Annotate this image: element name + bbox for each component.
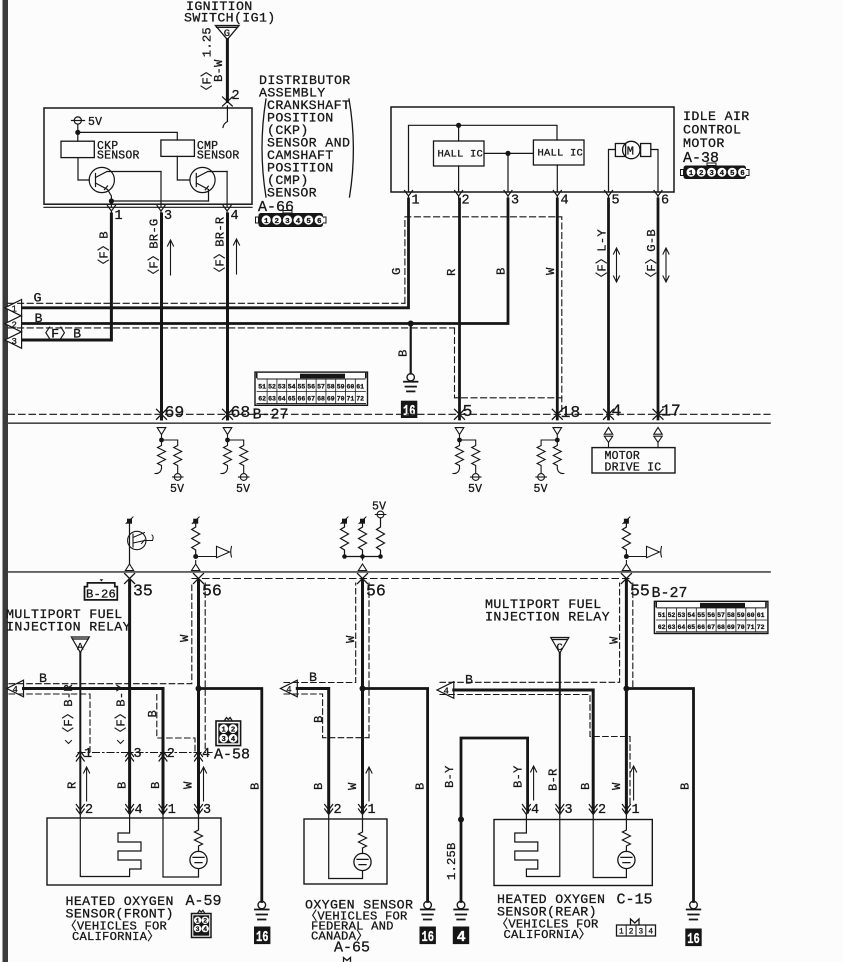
svg-text:59: 59 [737,612,745,619]
svg-text:1: 1 [115,209,123,224]
wire B bus right [454,690,593,812]
pin 17 label [661,402,681,421]
B-27 label top [253,407,289,424]
sensor element A-59 (zener cell) [195,815,203,852]
svg-text:W: W [346,782,360,790]
HALL IC 1 [434,141,485,166]
heater element A-59 [80,815,141,877]
A-65 pin labels 2 1 [334,803,376,818]
svg-text:72: 72 [356,396,364,403]
svg-text:2: 2 [629,929,634,937]
wire A38 pin1 G [22,199,409,308]
A-59 pin chevrons (down) [76,805,202,815]
resistor R to 5V (pin69 right) [162,440,182,474]
svg-text:56: 56 [307,384,315,391]
svg-text:70: 70 [737,624,745,631]
svg-text:G: G [390,267,404,275]
svg-text:67: 67 [707,624,715,631]
5V supply pin68 [239,474,250,481]
svg-text:2: 2 [231,726,235,734]
svg-text:1: 1 [368,803,376,818]
big parenthesis left [262,99,266,197]
pin 18 label [561,403,581,422]
svg-text:65: 65 [687,624,695,631]
wire label B-R [546,768,560,791]
transistor Q1 (CKP output) [78,158,161,201]
pin 2 crossing X [223,97,233,106]
connector icon A-59 [192,910,212,937]
ground ref box 4 [453,927,469,945]
distributor assembly text block [259,73,351,201]
svg-text:B: B [312,782,326,790]
svg-text:66: 66 [297,396,305,403]
ECU connector dashed line B-27 top [8,413,770,415]
pin 68 label [231,403,251,422]
svg-text:62: 62 [258,396,266,403]
5V supply pin56M [375,511,386,518]
node pin69 [159,438,164,443]
A-58 pin chevrons (up) with vee marks [66,741,203,762]
svg-text:B: B [146,710,160,718]
wire hall2 out pin4 [556,165,558,192]
svg-text:〈F〉BR-R: 〈F〉BR-R [213,217,228,279]
svg-text:61: 61 [356,384,364,391]
wire shield drain to ground left [199,689,262,902]
svg-text:63: 63 [668,624,676,631]
wire 1.25 B-W from ignition switch [226,40,229,102]
svg-text:5V: 5V [88,116,102,129]
wire label G horizontal [34,291,42,306]
svg-text:5V: 5V [468,483,482,496]
A-58 label [214,747,250,764]
wire distributor pin1 <F>B [22,214,112,340]
svg-text:HALL IC: HALL IC [438,149,484,161]
harness arrow 1 (to page) [5,300,22,317]
big parenthesis right [349,99,353,197]
svg-text:69: 69 [327,396,335,403]
svg-text:B: B [149,781,163,789]
A-65 pin chevrons [325,805,367,815]
svg-text:W: W [610,782,624,790]
svg-text:5: 5 [612,194,620,209]
internal terminal marks pin56M [342,519,347,524]
svg-text:69: 69 [165,403,185,422]
svg-text:71: 71 [747,624,755,631]
wire label B horizontal [35,311,43,326]
resistor trio pin56M right [377,518,385,557]
svg-text:5V: 5V [236,483,250,496]
shield dashed around B corner [157,695,195,753]
svg-text:4: 4 [202,747,210,762]
direction arrow up (W mid) [366,767,372,801]
svg-text:B: B [579,782,593,790]
pin 5 crossing X [455,409,465,419]
resistor R (pin68 left) [221,440,232,474]
idle air control motor box A-38 [391,107,674,192]
wire labels B-Y / B / W above C-15 [511,765,624,790]
svg-text:3: 3 [511,194,519,209]
direction arrow double G-B [663,248,669,282]
wire labels below A-58: R B B W [66,781,196,789]
wire Q2 collector to pin4 [226,172,228,208]
svg-text:R: R [66,781,80,789]
svg-text:68: 68 [317,396,325,403]
resistor R to 5V (pin68 right) [228,440,248,474]
svg-text:SWITCH(IG1): SWITCH(IG1) [184,11,276,26]
wire 35 down [128,581,131,812]
distributor assembly box A-66 [44,108,252,204]
node pin18 [555,438,560,443]
svg-text:3: 3 [285,218,290,226]
A-59 pin labels 2 4 1 3 [85,803,211,818]
svg-text:57: 57 [317,384,325,391]
wire label B right [465,673,473,688]
pin arrow V distributor pin4 [223,206,231,215]
node shield right [623,686,629,692]
svg-text:A-38: A-38 [683,150,719,167]
direction arrow up (W right) [631,766,637,800]
svg-text:A-65: A-65 [334,940,370,957]
sensor element A-65 [359,815,367,854]
svg-text:16: 16 [422,929,435,946]
CMP sensor block [161,140,195,156]
svg-text:67: 67 [307,396,315,403]
wire label B mid upper [312,715,326,723]
shield dashed right of 55 [632,583,634,689]
pin 5 label [463,402,473,421]
svg-text:〈F〉B: 〈F〉B [38,327,82,342]
svg-text:A-59: A-59 [186,893,222,910]
svg-text:54: 54 [288,384,296,391]
svg-text:MOTOR: MOTOR [683,136,725,151]
input triangle pin69 [157,428,166,440]
internal terminal mark pin35 [127,519,132,524]
node B to ground junction [408,321,414,327]
C-15 pin labels 4 3 2 1 [531,803,640,818]
wire relay A down [79,653,81,812]
wire labels B / W above A-65 [312,782,360,790]
wire distributor pin4 BR-R [226,214,229,419]
comparator buffer pin55 [626,546,661,557]
svg-text:B: B [312,715,326,723]
wire shield drain to ground mid [363,689,428,902]
svg-text:5V: 5V [170,483,184,496]
C-15 caption [496,892,653,943]
wire label <F>B [97,231,112,271]
svg-text:4: 4 [135,803,143,818]
svg-text:55: 55 [297,384,305,391]
wire label <F> 1.25 [200,27,215,97]
shield dashed below bus mid [284,694,369,738]
wire B bus mid [297,689,328,813]
heater element C-15 [515,815,560,877]
svg-text:B-26: B-26 [86,588,116,602]
svg-text:〈F〉B-Y: 〈F〉B-Y [113,684,128,739]
relay terminal triangle A [71,637,89,653]
svg-text:B: B [35,311,43,326]
wire label <F>BR-G [147,219,162,281]
svg-text:M: M [627,145,634,159]
svg-text:B: B [116,781,130,789]
svg-text:4: 4 [231,736,236,744]
wire label <F>B-R [61,684,76,739]
svg-text:HALL IC: HALL IC [538,148,584,160]
wire A38 pin5 L-Y [607,199,610,419]
wire motor pin5 [609,150,616,193]
sensor element C-15 [622,815,630,852]
direction arrow up (W wire) [201,767,207,801]
svg-text:5: 5 [463,402,473,421]
svg-text:16: 16 [256,929,269,946]
wire hall link [484,152,533,154]
svg-text:1: 1 [412,194,420,209]
svg-text:B-R: B-R [546,768,560,791]
node shield to ground [196,686,202,692]
harness arrow 4 mid [281,680,298,697]
wire B-Y loop (rear sensor heater feed) [461,738,528,902]
svg-text:35: 35 [133,582,153,601]
B-27 label bottom [652,585,688,602]
wire label <F>G-B [644,229,659,284]
pin 55 label [630,582,650,601]
pin 55 crossing X [621,574,631,584]
harness arrow 4 right [437,682,454,699]
svg-text:2: 2 [598,803,606,818]
svg-text:52: 52 [268,384,276,391]
svg-text:59: 59 [337,384,345,391]
wire label <F>B horizontal [38,327,82,342]
pin 69 label [165,403,185,422]
svg-text:53: 53 [278,384,286,391]
svg-text:58: 58 [727,612,735,619]
wire motor pin6 [651,150,658,193]
resistor R (pin69 left) [155,440,166,474]
pin 56 left crossing X [194,574,204,584]
svg-text:1: 1 [619,929,624,937]
pin 35 label [133,582,153,601]
ground ref box 16 right [685,929,701,947]
svg-text:4: 4 [531,803,539,818]
svg-text:B: B [249,782,263,790]
pin 35 crossing X [125,574,135,584]
svg-text:W: W [178,634,192,642]
svg-text:72: 72 [757,624,765,631]
svg-text:1: 1 [222,726,227,734]
ground ref box 16 mid [420,927,436,945]
svg-text:60: 60 [747,612,755,619]
svg-text:3: 3 [164,209,172,224]
svg-text:W: W [544,267,558,275]
shield dashed above bus right [440,583,620,682]
direction arrow up BR-G [168,240,174,275]
svg-text:B-W: B-W [212,59,226,82]
wire shield drain to ground right [626,689,693,902]
svg-text:4: 4 [612,402,622,421]
wire 56L down to shield node [197,581,200,689]
harness arrow 4 left [7,680,24,697]
svg-text:71: 71 [346,396,354,403]
ECU boundary line bottom [8,571,770,573]
shield dashed below bus left [9,694,90,752]
wire label B [309,670,317,685]
input triangle pin18 [553,428,562,440]
connector mark A-65 (cut off) [344,958,351,962]
svg-text:1: 1 [84,747,92,762]
resistor trio pin56M left [341,524,349,557]
svg-text:54: 54 [687,612,695,619]
svg-text:B-27: B-27 [652,585,688,602]
svg-text:3: 3 [134,747,142,762]
wire pin1 from junction [110,201,112,207]
resistor to pin55 [622,524,630,557]
pin 68 crossing X [223,409,233,419]
svg-text:1.25B: 1.25B [445,842,459,880]
output triangle pin55 [622,561,630,571]
svg-text:1: 1 [689,170,694,178]
shield dashed below B [8,327,455,329]
pin number labels 1 3 4 [115,209,239,224]
resistor to pin56L [192,524,200,557]
node shield mid [360,686,366,692]
svg-text:INJECTION RELAY: INJECTION RELAY [485,610,610,625]
node: 5V junction [75,130,80,135]
node hall link [505,151,510,156]
svg-text:〈F〉B-R: 〈F〉B-R [61,684,76,739]
pin 69 crossing X [157,409,167,419]
heated oxygen sensor rear box C-15 [494,820,652,886]
svg-text:B: B [397,349,411,357]
ignition switch terminal triangle G [216,26,240,40]
svg-text:3: 3 [12,337,17,347]
node: emitter common junction [109,198,114,203]
pin number labels 1-6 [412,194,670,209]
wire label <F>BR-R [213,217,228,279]
wire common emitter line [111,200,208,202]
connector icon A-38 [681,163,750,179]
connector icon C-15 [617,919,656,936]
pin 56 mid crossing X [358,574,368,584]
svg-text:B: B [495,267,509,275]
wire label B ground left [249,782,263,790]
svg-text:B-Y: B-Y [443,765,457,788]
svg-text:64: 64 [677,624,685,631]
wire B to ground [410,324,412,374]
svg-text:4: 4 [296,218,301,226]
nodes pin56M [342,554,347,559]
shield dashed right of R [455,328,562,398]
relay terminal triangle C [551,638,569,654]
svg-text:17: 17 [661,402,681,421]
C-15 pin chevrons [522,805,630,815]
svg-text:60: 60 [346,384,354,391]
svg-text:66: 66 [697,624,705,631]
wire label B [39,671,47,686]
svg-text:6: 6 [740,170,745,178]
ground symbol mid [421,901,435,919]
5V supply pin69 [173,474,184,481]
wire A38 pin2 R [458,199,461,419]
wire node to pin3 [507,153,509,192]
wire label B ground right [678,782,692,790]
svg-text:61: 61 [757,612,765,619]
svg-text:3: 3 [222,736,226,744]
svg-text:2: 2 [85,803,93,818]
ground symbol (B-27 area) [404,374,418,392]
output triangle pin56M [358,557,366,571]
svg-text:2: 2 [167,747,175,762]
pin 4 crossing X [604,409,614,419]
joining wire pin56M [345,556,381,558]
wire label B ground mid [414,782,428,790]
svg-text:2: 2 [232,89,240,104]
svg-text:2: 2 [275,218,280,226]
resistor R (pin5 left) [453,440,464,474]
A-65 caption [305,898,413,957]
svg-text:4: 4 [720,170,725,178]
motor drive IC box [592,448,675,473]
heated oxygen sensor front box A-59 [47,818,221,885]
svg-text:2: 2 [334,803,342,818]
svg-text:R: R [445,268,459,276]
wire A38 pin6 G-B [657,199,660,419]
wire label B corner [146,710,160,718]
CKP sensor block [61,141,94,157]
shield dashed above G [8,302,405,304]
svg-text:51: 51 [658,612,666,619]
output triangles pin17 [654,427,662,447]
output triangle pin35 [125,564,133,571]
svg-text:CALIFORNIA〉: CALIFORNIA〉 [72,929,160,944]
shield dashed right of 56M [368,583,370,738]
connector icon B-27 bottom [654,601,768,633]
wire label 1.25B [445,842,459,880]
connector icon A-66 [256,211,327,228]
wire label B-Y left [443,765,457,788]
shield dashed above bus mid [284,583,356,683]
svg-text:18: 18 [561,403,581,422]
node pin5 [457,438,462,443]
wire 55 down to shield node [625,581,628,689]
wire label G [390,267,404,275]
input triangle pin5 [455,428,464,440]
node pin68 [225,438,230,443]
5V supply pin5 [471,474,482,481]
pin 2 label distributor [232,89,240,104]
resistor R (pin18 right leg) [553,440,564,474]
internal terminal mark pin56L [193,519,198,524]
wire hall1 out pin2 [458,166,460,192]
connector icon B-27 top [255,372,368,405]
idle air control motor label [683,109,750,167]
ground ref box 16 [401,401,417,418]
ground symbol left [255,901,269,919]
svg-text:5V: 5V [372,501,386,514]
svg-text:55: 55 [697,612,705,619]
motor M [615,141,650,158]
pin arrow V distributor pin3 [157,206,165,215]
svg-text:5: 5 [730,170,735,178]
pin 56 left label [202,582,222,601]
multiport fuel injection relay label right [485,597,610,625]
svg-text:3: 3 [639,929,644,937]
ignition switch label [184,0,276,26]
svg-text:69: 69 [727,624,735,631]
ground ref box 16 left [254,927,270,945]
wire 56L below node [197,689,200,813]
svg-text:CALIFORNIA〉: CALIFORNIA〉 [504,927,592,942]
wire 5V to CMP sensor [78,132,178,140]
pin 2 stub inside distributor [223,106,227,128]
